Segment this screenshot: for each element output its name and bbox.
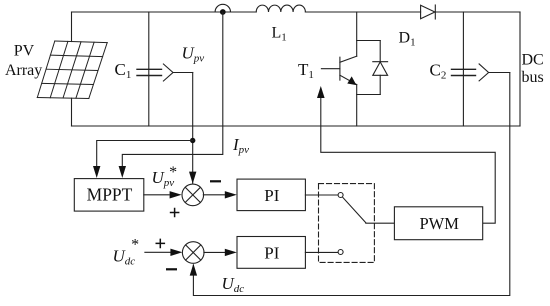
summing junction S1 (182, 184, 204, 206)
svg-text:MPPT: MPPT (87, 185, 133, 205)
block PWM (394, 207, 482, 240)
svg-text:D1: D1 (399, 30, 416, 49)
svg-text:bus: bus (522, 69, 544, 86)
block PI2 (237, 237, 305, 269)
wire Udc feedback (193, 73, 509, 296)
wire Ipv sense line (122, 12, 223, 166)
wire PV bottom lead (71, 98, 73, 126)
wire S1 to PI1 (203, 194, 225, 196)
block MPPT (74, 179, 144, 212)
svg-text:Udc*: Udc* (113, 237, 140, 268)
capacitor C1 (137, 12, 162, 126)
svg-text:T1: T1 (298, 60, 314, 81)
wire top rail (72, 11, 521, 13)
svg-text:PV: PV (14, 42, 35, 59)
svg-text:L1: L1 (272, 25, 287, 44)
wire PV top lead (71, 12, 73, 42)
label plus S1 (170, 208, 180, 218)
switch contact 1 (338, 193, 343, 198)
current sensor hop arc (215, 4, 230, 12)
wire diode bottom connector (357, 94, 381, 96)
node Upv junction dot (190, 138, 195, 143)
wire gate drive (321, 97, 495, 223)
arrow Upv into MPPT (93, 166, 100, 178)
arrow into summing junction S2 left (170, 249, 182, 256)
diode D1 (421, 5, 436, 19)
label minus S1 (210, 180, 221, 182)
voltage probe Udc (479, 64, 510, 81)
wire right end vertical (519, 12, 521, 126)
wire PI2 to switch (305, 251, 338, 253)
arrow into PI2 (225, 249, 237, 256)
switch dashed box (319, 184, 375, 263)
svg-text:PI: PI (264, 186, 279, 205)
label plus S2 (156, 239, 166, 249)
wire Upv sense vertical (192, 73, 194, 184)
voltage probe Upv (163, 64, 192, 81)
svg-text:PWM: PWM (419, 214, 459, 233)
svg-text:PI: PI (264, 243, 279, 262)
svg-text:Upv: Upv (182, 44, 205, 65)
svg-text:C2: C2 (430, 61, 447, 82)
svg-text:C1: C1 (115, 60, 132, 81)
wire S2 to PI2 (204, 251, 225, 253)
arrow gate drive (317, 86, 325, 98)
wire diode top connector (357, 40, 381, 42)
summing junction S2 (182, 242, 204, 264)
inductor L1 (256, 5, 305, 12)
capacitor C2 (452, 12, 476, 126)
wire MPPT to summing junction (144, 194, 169, 196)
wire bottom rail (72, 125, 521, 127)
transistor T1 (321, 56, 356, 85)
wire PI1 to switch (305, 194, 338, 196)
label minus S2 (166, 268, 177, 270)
svg-text:Upv*: Upv* (152, 164, 178, 189)
wire Upv branch to MPPT (97, 141, 193, 166)
transistor T1 collector branch (356, 12, 358, 56)
svg-text:Ipv: Ipv (232, 135, 249, 156)
svg-text:DC: DC (522, 51, 544, 68)
block PI1 (237, 179, 305, 211)
diode antiparallel (373, 41, 388, 95)
wire Udc ref input (145, 251, 170, 253)
svg-text:Udc: Udc (222, 274, 245, 295)
switch contact 2 (338, 250, 343, 255)
transistor T1 emitter branch (356, 85, 358, 126)
arrow Ipv into MPPT (119, 166, 126, 178)
arrow into summing junction S1 top (189, 172, 196, 184)
switch blade (343, 197, 366, 223)
arrow into summing junction S2 bottom (190, 264, 197, 276)
svg-text:Array: Array (5, 62, 42, 79)
PV array panel (37, 41, 107, 99)
arrow into PI1 (225, 191, 237, 198)
arrow into summing junction S1 left (170, 191, 182, 198)
wire switch to PWM (366, 222, 395, 224)
node current sense dot (220, 9, 226, 15)
